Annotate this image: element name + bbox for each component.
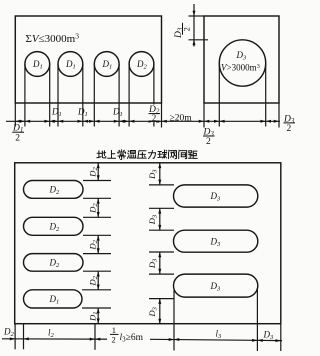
1/2 l3 >= 6m label with white knockout bbox=[107, 325, 150, 345]
char 温 bbox=[127, 151, 136, 159]
svg-text:D2: D2 bbox=[88, 239, 100, 250]
svg-text:2: 2 bbox=[182, 27, 192, 31]
svg-text:D1: D1 bbox=[65, 59, 76, 71]
tank D3 leg lines bbox=[219, 63, 265, 127]
right column vertical dimension lines bbox=[159, 163, 161, 324]
svg-text:D3: D3 bbox=[147, 169, 159, 180]
left column reference lines bbox=[82, 181, 111, 309]
dike rectangle C bbox=[15, 163, 281, 324]
svg-text:l2: l2 bbox=[48, 328, 55, 340]
svg-text:D2: D2 bbox=[136, 59, 148, 71]
tank D1 capsule 4 bbox=[24, 290, 83, 308]
tank D3 capsule 2 bbox=[174, 230, 258, 252]
right column vertical dim arrows bbox=[158, 163, 161, 168]
svg-text:D2: D2 bbox=[3, 327, 15, 339]
char 力 bbox=[149, 151, 156, 159]
char 常 bbox=[118, 150, 126, 160]
svg-text:2: 2 bbox=[206, 137, 211, 147]
dike rectangle B bbox=[204, 16, 279, 103]
capsule labels bbox=[49, 184, 61, 196]
fraction D1/2 bottom left bbox=[12, 124, 24, 144]
tank D3 circle bbox=[219, 40, 265, 86]
svg-text:D3: D3 bbox=[210, 191, 222, 203]
svg-text:D1: D1 bbox=[77, 107, 88, 119]
svg-text:2: 2 bbox=[152, 113, 157, 123]
dike rectangle A bbox=[15, 16, 161, 103]
fraction D3/2 below gap bbox=[203, 128, 215, 147]
svg-text:D2: D2 bbox=[88, 275, 100, 286]
svg-text:D1: D1 bbox=[102, 59, 113, 71]
svg-text:D2: D2 bbox=[49, 257, 61, 269]
rotated fraction D3/2 top right bbox=[174, 23, 192, 39]
char 阀 bbox=[169, 150, 177, 159]
right column reference lines bbox=[149, 185, 174, 299]
bottom dimension drop lines bbox=[15, 288, 281, 351]
svg-text:D1: D1 bbox=[51, 107, 62, 119]
fraction D2/2 above dim line bbox=[148, 105, 160, 123]
svg-text:D2: D2 bbox=[49, 184, 61, 196]
svg-text:l3≥6m: l3≥6m bbox=[120, 333, 144, 344]
tank D3 capsule 3 bbox=[174, 274, 258, 297]
fraction D3/2 right end bbox=[283, 114, 295, 133]
svg-text:≥20m: ≥20m bbox=[170, 113, 193, 123]
gap dim labels D1 bbox=[51, 107, 62, 119]
tank labels D1 D1 D1 D2 bbox=[32, 59, 43, 71]
tank D2 capsule 1 bbox=[24, 181, 84, 199]
svg-text:D3: D3 bbox=[210, 236, 222, 248]
svg-text:D3: D3 bbox=[147, 258, 159, 269]
char 地 bbox=[97, 151, 106, 158]
dike A edge extension lines bbox=[15, 103, 161, 128]
tank D3 capsule 1 bbox=[174, 185, 258, 207]
tank D1 circle 2 bbox=[58, 52, 83, 77]
char 压 bbox=[138, 151, 146, 159]
svg-text:D1: D1 bbox=[32, 59, 43, 71]
left column vertical dimension lines bbox=[97, 163, 99, 324]
bottom dim labels bbox=[3, 327, 15, 339]
>=20m label bbox=[170, 113, 193, 123]
svg-text:ΣV≤3000m3: ΣV≤3000m3 bbox=[26, 32, 80, 45]
bottom dim line arrows bbox=[10, 337, 15, 340]
tank leg lines (tangent drop lines) bbox=[25, 64, 154, 127]
rotated right column labels bbox=[147, 169, 159, 180]
svg-text:D1: D1 bbox=[88, 312, 100, 322]
bottom dimension line bbox=[2, 339, 282, 341]
tank D2 capsule 3 bbox=[24, 254, 84, 272]
char 间 bbox=[179, 150, 187, 159]
svg-text:D3: D3 bbox=[263, 330, 275, 342]
top-right vertical dim arrows (outside converging) bbox=[193, 11, 196, 16]
svg-text:2: 2 bbox=[112, 335, 116, 345]
tank D2 circle 4 bbox=[129, 52, 154, 77]
svg-text:D3: D3 bbox=[147, 306, 159, 317]
char 距 bbox=[188, 151, 197, 159]
svg-text:D2: D2 bbox=[88, 167, 100, 178]
left column vertical dim arrows bbox=[97, 163, 100, 168]
tank D3 circle labels bbox=[236, 50, 248, 62]
dike B edge extension lines bbox=[204, 103, 279, 128]
svg-text:V>3000m3: V>3000m3 bbox=[221, 63, 260, 73]
svg-text:2: 2 bbox=[287, 124, 292, 134]
char 上 bbox=[108, 150, 116, 158]
rotated left column labels bbox=[88, 167, 100, 178]
tank D2 capsule 2 bbox=[24, 217, 84, 235]
svg-text:D3: D3 bbox=[210, 281, 222, 293]
svg-text:D2: D2 bbox=[49, 221, 61, 233]
top dim line arrows (inside-outward per span) bbox=[15, 120, 20, 123]
tank D1 circle 1 bbox=[25, 52, 50, 77]
svg-text:D2: D2 bbox=[88, 203, 100, 214]
svg-text:D1: D1 bbox=[112, 107, 123, 119]
tank D1 circle 3 bbox=[94, 52, 119, 77]
char 球 bbox=[158, 150, 167, 158]
svg-text:D3: D3 bbox=[236, 50, 248, 62]
svg-text:D1: D1 bbox=[49, 294, 60, 306]
svg-text:D3: D3 bbox=[147, 214, 159, 225]
svg-text:l3: l3 bbox=[216, 329, 223, 341]
svg-text:2: 2 bbox=[15, 134, 20, 144]
sum volume label bbox=[26, 32, 80, 45]
vertical dimension D3/2 at top of dike B bbox=[189, 4, 209, 47]
